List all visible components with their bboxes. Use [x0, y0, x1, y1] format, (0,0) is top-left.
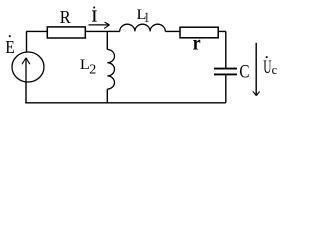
svg-text:2: 2 [89, 63, 96, 78]
svg-text:U: U [263, 57, 271, 78]
svg-text:C: C [239, 61, 249, 82]
svg-text:I: I [92, 7, 98, 26]
svg-text:c: c [272, 63, 278, 77]
svg-text:E: E [5, 37, 14, 57]
svg-text:r: r [193, 33, 201, 55]
svg-text:R: R [60, 8, 71, 28]
svg-text:1: 1 [144, 8, 149, 25]
